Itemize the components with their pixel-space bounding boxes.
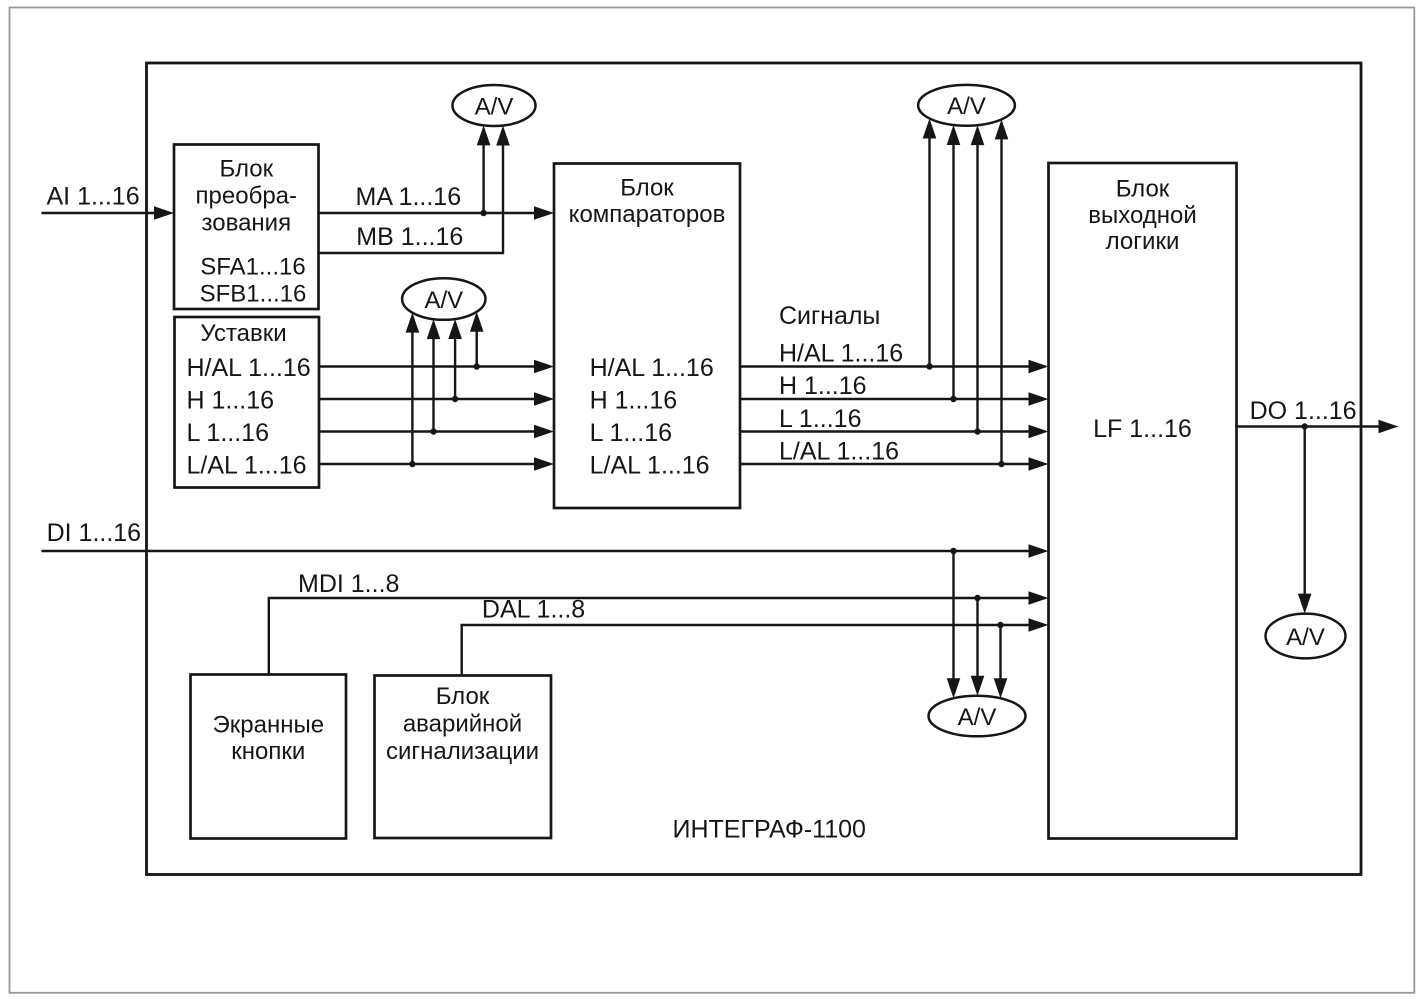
svg-text:зования: зования: [202, 210, 292, 237]
svg-text:A/V: A/V: [947, 93, 986, 120]
svg-text:H/AL 1...16: H/AL 1...16: [590, 354, 714, 382]
svg-text:L/AL 1...16: L/AL 1...16: [779, 437, 899, 465]
svg-text:Блок: Блок: [620, 175, 674, 202]
svg-text:Блок: Блок: [219, 156, 273, 183]
svg-text:L 1...16: L 1...16: [779, 405, 861, 433]
svg-text:аварийной: аварийной: [403, 711, 522, 738]
svg-text:MDI 1...8: MDI 1...8: [298, 570, 399, 598]
svg-text:Блок: Блок: [436, 683, 490, 710]
svg-text:A/V: A/V: [475, 93, 514, 120]
svg-text:A/V: A/V: [424, 287, 463, 314]
svg-text:DI 1...16: DI 1...16: [47, 519, 142, 547]
svg-text:L/AL 1...16: L/AL 1...16: [590, 452, 710, 480]
svg-text:A/V: A/V: [1286, 624, 1325, 651]
svg-text:преобра-: преобра-: [196, 183, 297, 210]
svg-text:SFB1...16: SFB1...16: [200, 281, 307, 308]
svg-text:H 1...16: H 1...16: [590, 386, 678, 414]
svg-text:L 1...16: L 1...16: [590, 419, 672, 447]
svg-text:H/AL 1...16: H/AL 1...16: [779, 340, 903, 368]
svg-text:MB 1...16: MB 1...16: [356, 223, 463, 251]
svg-text:SFA1...16: SFA1...16: [200, 253, 305, 280]
svg-text:MA 1...16: MA 1...16: [356, 183, 462, 211]
svg-text:Сигналы: Сигналы: [779, 302, 880, 330]
svg-text:Экранные: Экранные: [213, 712, 325, 739]
svg-text:ИНТЕГРАФ-1100: ИНТЕГРАФ-1100: [673, 816, 866, 844]
svg-text:L/AL 1...16: L/AL 1...16: [187, 452, 307, 480]
svg-text:логики: логики: [1106, 228, 1180, 255]
svg-text:сигнализации: сигнализации: [386, 738, 539, 765]
svg-text:Блок: Блок: [1116, 176, 1170, 203]
svg-text:Уставки: Уставки: [200, 320, 286, 347]
svg-text:A/V: A/V: [958, 704, 997, 731]
svg-text:компараторов: компараторов: [569, 201, 726, 228]
svg-text:кнопки: кнопки: [231, 738, 305, 765]
svg-text:H 1...16: H 1...16: [779, 372, 867, 400]
svg-text:AI 1...16: AI 1...16: [47, 183, 140, 211]
svg-text:DAL 1...8: DAL 1...8: [482, 595, 585, 623]
svg-text:DO 1...16: DO 1...16: [1250, 397, 1357, 425]
svg-text:выходной: выходной: [1088, 202, 1197, 229]
svg-text:H/AL 1...16: H/AL 1...16: [187, 354, 311, 382]
svg-text:L 1...16: L 1...16: [187, 419, 269, 447]
svg-text:LF 1...16: LF 1...16: [1093, 415, 1192, 443]
svg-text:H 1...16: H 1...16: [187, 386, 275, 414]
